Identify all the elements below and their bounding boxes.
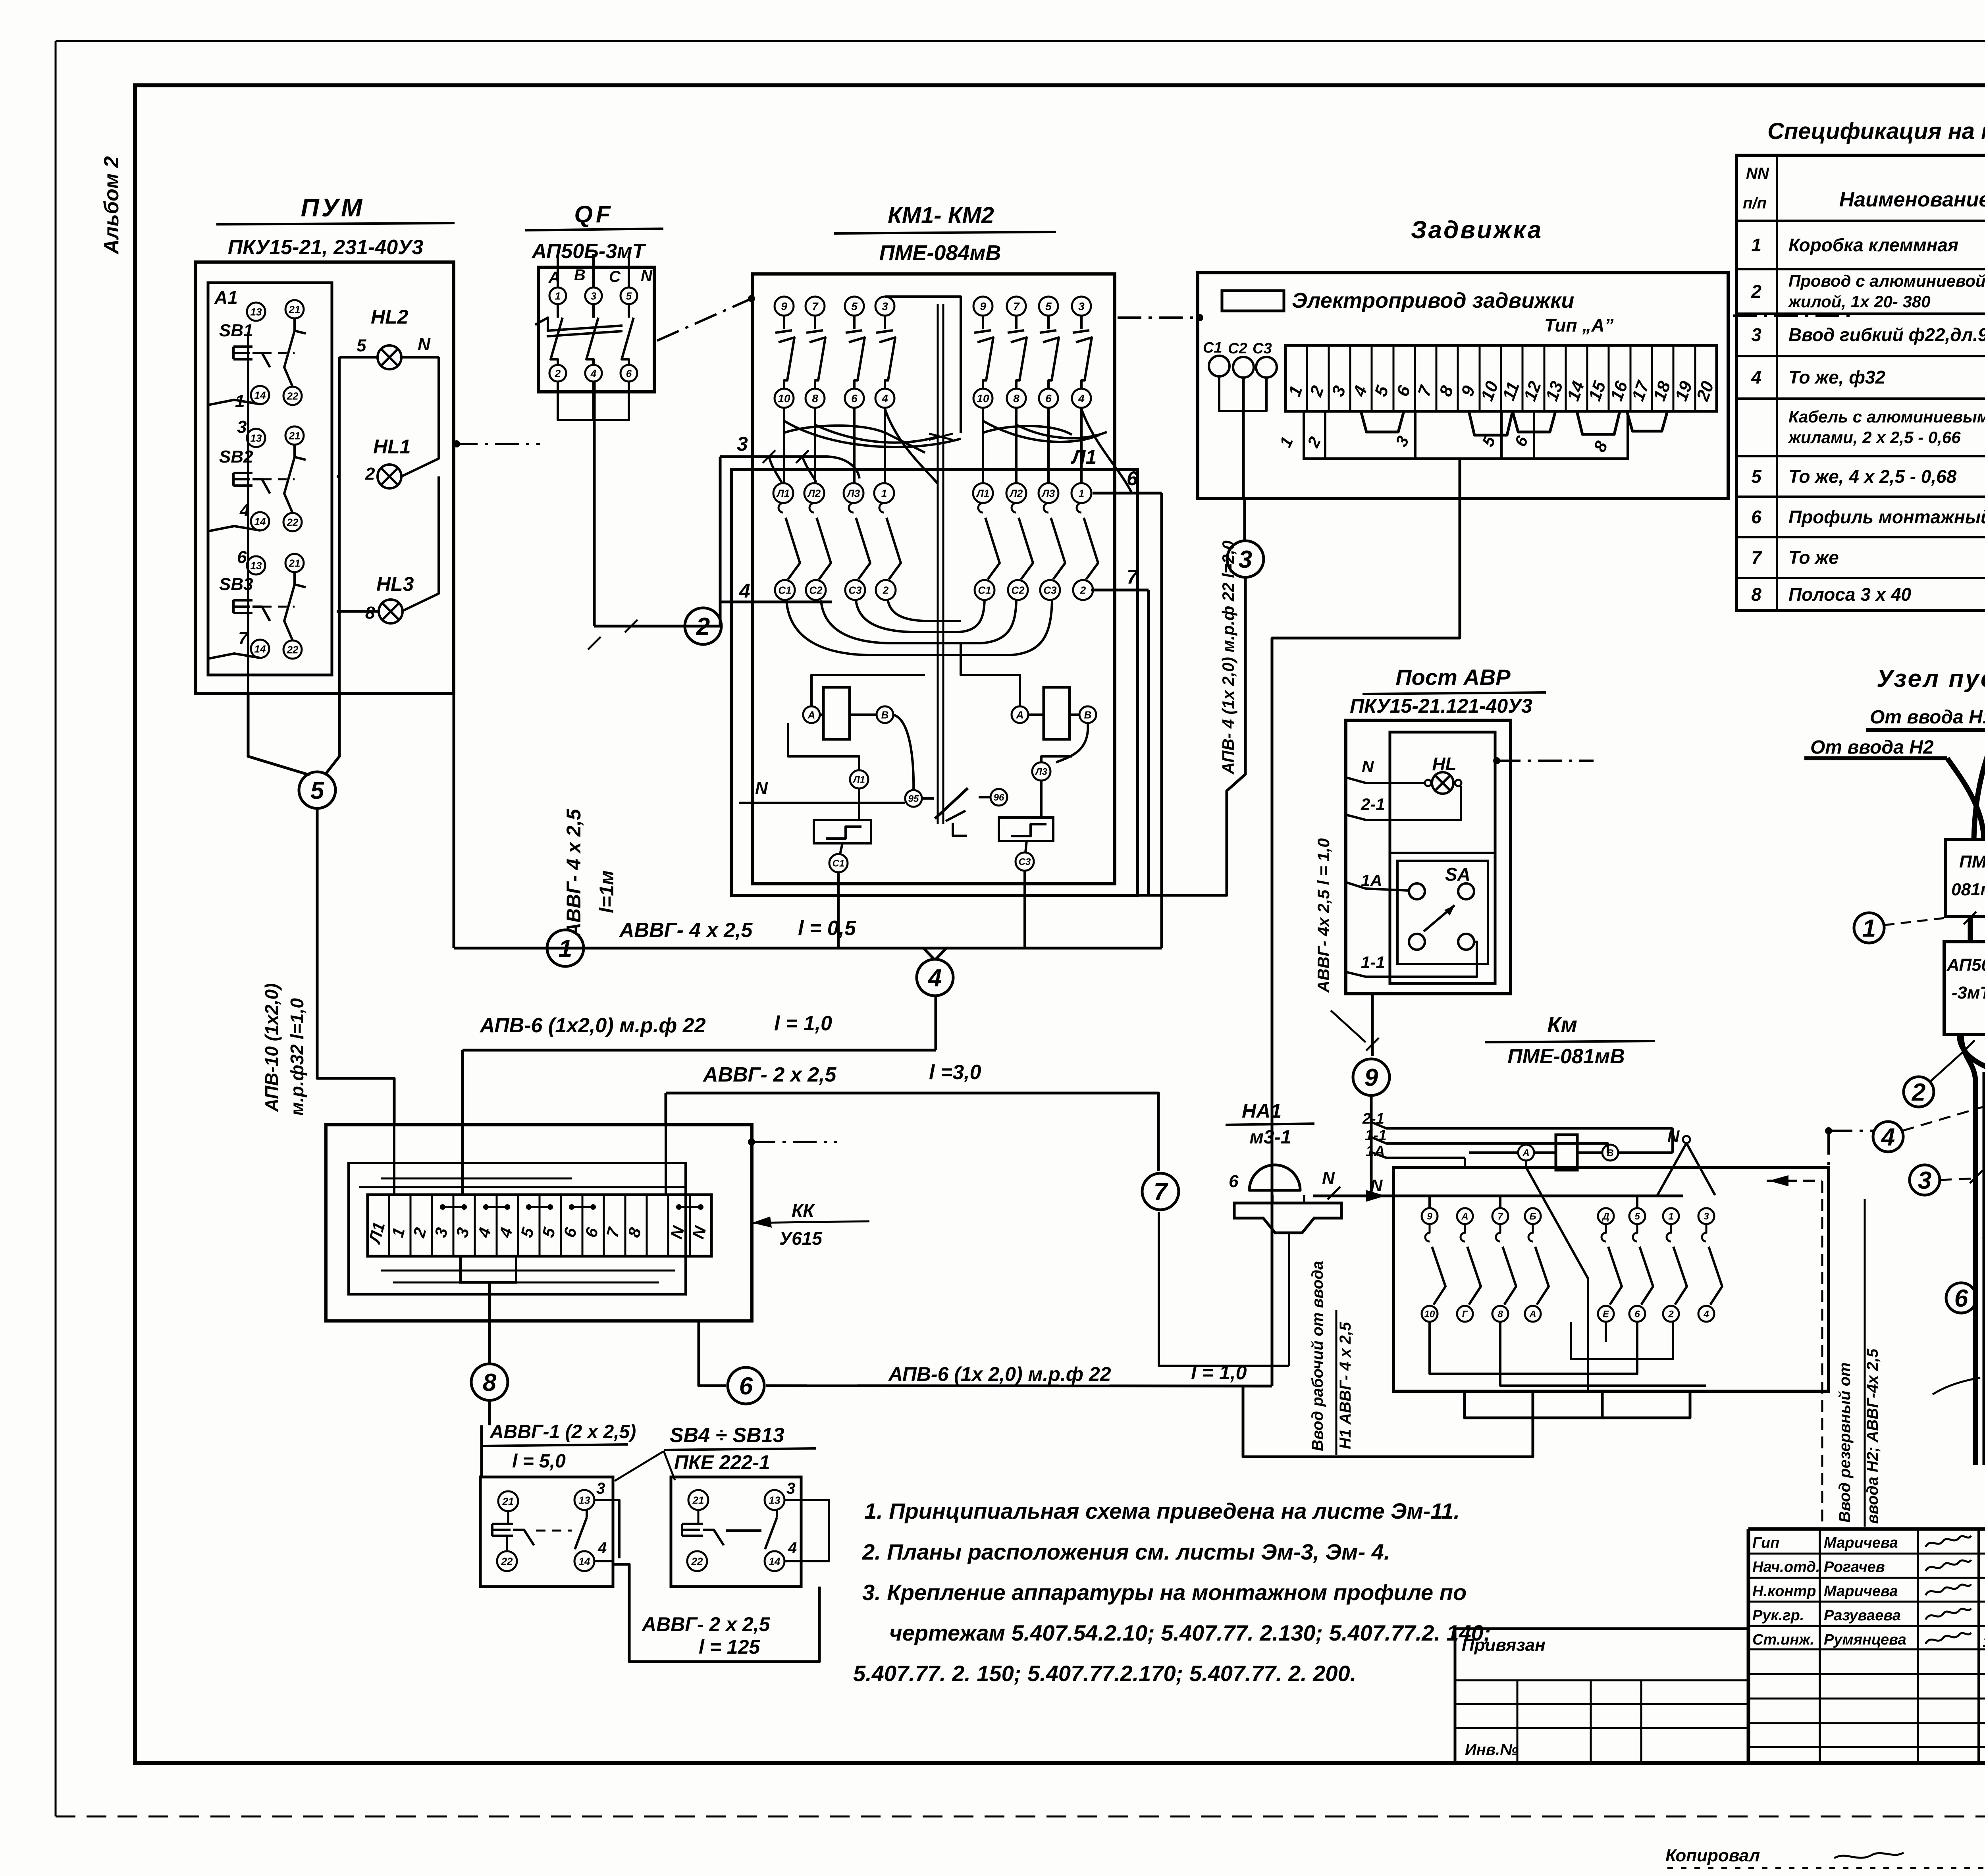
svg-text:N: N (418, 335, 431, 354)
svg-text:QF: QF (574, 201, 613, 228)
svg-text:9: 9 (980, 300, 986, 312)
svg-text:3: 3 (786, 1480, 795, 1497)
circle marker 4 uzel (1873, 1122, 1903, 1152)
svg-text:жилой, 1х 20- 380: жилой, 1х 20- 380 (1788, 292, 1931, 311)
svg-text:АП50Б: АП50Б (1946, 955, 1985, 975)
KM1-KM2 enclosure box (752, 274, 1115, 884)
push-button SB2 (247, 429, 265, 447)
svg-text:А1: А1 (214, 287, 238, 308)
svg-text:10: 10 (1424, 1309, 1435, 1320)
svg-text:SB3: SB3 (219, 575, 253, 594)
svg-text:С3: С3 (1253, 340, 1272, 357)
push-button SB3 (247, 556, 265, 575)
KK terminal strip (368, 1195, 711, 1256)
svg-text:НА1: НА1 (1242, 1100, 1282, 1122)
svg-text:3: 3 (1239, 546, 1252, 573)
AP50B-3mT box (1944, 942, 1985, 1035)
dash-dot link KM1 to Zadvizhka (1118, 316, 1198, 319)
cable marker circle 3 (1227, 541, 1264, 577)
svg-text:В: В (1607, 1148, 1613, 1159)
feeder cables from inputs (1974, 730, 1985, 839)
svg-text:2: 2 (1912, 1079, 1925, 1106)
coil KM2 (1044, 687, 1070, 739)
svg-text:6: 6 (851, 392, 858, 405)
vertical feeder to buses 3 and 4 (719, 457, 722, 626)
svg-text:1. Принципиальная схема прив: 1. Принципиальная схема приведена на лис… (864, 1498, 1460, 1523)
svg-text:4: 4 (239, 501, 249, 520)
svg-text:l = 125: l = 125 (699, 1636, 760, 1658)
svg-text:4: 4 (788, 1539, 797, 1557)
svg-text:В: В (1084, 709, 1092, 721)
svg-text:Наименование: Наименование (1839, 188, 1985, 211)
svg-text:АВВГ-1 (2 х 2,5): АВВГ-1 (2 х 2,5) (490, 1421, 636, 1442)
wire from Zadvizhka jumper to lower-left rail (1272, 499, 1460, 1386)
svg-text:КМ1- КМ2: КМ1- КМ2 (888, 202, 994, 228)
svg-text:ПУМ: ПУМ (301, 193, 365, 222)
svg-text:6: 6 (1751, 507, 1761, 527)
svg-text:3: 3 (1918, 1167, 1931, 1194)
svg-text:22: 22 (501, 1555, 513, 1567)
KK right exit to circle 6 (699, 1321, 726, 1386)
svg-text:В: В (881, 709, 889, 721)
svg-text:9: 9 (1427, 1211, 1432, 1222)
APV-6 lower wire (766, 1386, 1272, 1386)
svg-text:HL: HL (1432, 754, 1456, 774)
svg-text:3: 3 (1704, 1211, 1709, 1222)
svg-text:Профиль монтажный: Профиль монтажный (1788, 507, 1985, 527)
svg-text:10: 10 (977, 392, 989, 405)
button box SB4 wires to loop (594, 1500, 619, 1558)
QF breaker poles (549, 287, 566, 304)
right dash-dot reference lines (1825, 1127, 1832, 1134)
svg-text:1: 1 (1668, 1211, 1673, 1222)
svg-text:7: 7 (1497, 1211, 1503, 1222)
svg-text:22: 22 (287, 644, 299, 656)
AVVG-1 2x2.5 cable label (480, 1425, 483, 1477)
svg-text:-3мТ: -3мТ (1952, 983, 1985, 1003)
svg-text:3: 3 (737, 433, 748, 455)
svg-text:5: 5 (851, 300, 858, 312)
svg-text:То же, 4 х 2,5 - 0,68: То же, 4 х 2,5 - 0,68 (1788, 466, 1957, 487)
svg-text:HL2: HL2 (371, 306, 409, 328)
mechanical link lines (937, 304, 939, 824)
svg-text:Электропривод задвижки: Электропривод задвижки (1292, 289, 1574, 312)
PUM inner unit A1 box (208, 283, 332, 675)
svg-text:Ввод рабочий от ввода: Ввод рабочий от ввода (1309, 1261, 1326, 1451)
inner SA box (1397, 861, 1488, 964)
svg-text:14: 14 (579, 1555, 590, 1567)
svg-text:1: 1 (559, 935, 572, 962)
wires from pole bottoms into L1 box (783, 408, 785, 484)
button box SB13 right (671, 1477, 801, 1587)
svg-text:6: 6 (1229, 1172, 1239, 1191)
svg-text:1: 1 (555, 290, 561, 302)
svg-text:Пост АВР: Пост АВР (1395, 665, 1511, 690)
svg-text:6: 6 (1954, 1285, 1968, 1312)
KM terminal rows (1422, 1208, 1438, 1224)
bell stem and connecting wire (1288, 1233, 1290, 1366)
svg-text:14: 14 (254, 389, 266, 401)
svg-text:8: 8 (812, 392, 818, 405)
wire from circle 4 down to APV-6 bus (935, 996, 937, 1050)
svg-text:l=1м: l=1м (595, 870, 618, 913)
svg-text:Л3: Л3 (846, 487, 860, 499)
svg-text:21: 21 (289, 303, 301, 315)
svg-text:8: 8 (365, 603, 375, 623)
svg-text:1984: 1984 (1983, 1634, 1985, 1650)
PUM enclosure box (196, 262, 454, 694)
bus 3 cross marks (763, 450, 775, 463)
sheet border (outer trim line) (56, 40, 1985, 42)
svg-text:Л2: Л2 (807, 487, 821, 499)
svg-text:м.р.ф32 l=1,0: м.р.ф32 l=1,0 (287, 998, 307, 1116)
svg-text:10: 10 (778, 392, 790, 405)
svg-text:3: 3 (237, 417, 247, 437)
svg-text:1-1: 1-1 (1361, 953, 1385, 972)
long arc wires upper section (784, 421, 961, 447)
svg-text:Рук.гр.: Рук.гр. (1752, 1607, 1804, 1624)
svg-text:ПКЕ 222-1: ПКЕ 222-1 (674, 1451, 770, 1473)
Post AVR inner box (1390, 732, 1495, 983)
svg-text:Л1: Л1 (852, 775, 865, 785)
svg-text:1: 1 (1079, 487, 1084, 499)
L1 box internal loop wiring lower (786, 600, 1052, 655)
svg-text:У615: У615 (779, 1228, 823, 1249)
circle marker 1 uzel (1854, 913, 1884, 943)
svg-text:Ст.инж.: Ст.инж. (1752, 1631, 1814, 1648)
svg-text:1: 1 (235, 391, 245, 411)
L1 outer box (731, 469, 1137, 895)
privyazan extension box (1455, 1629, 1748, 1763)
Post AVR dash-dot link (1493, 757, 1500, 764)
svg-text:Спецификация на монтажные: Спецификация на монтажные материалы (1767, 118, 1985, 144)
svg-text:А: А (1529, 1309, 1536, 1320)
svg-text:С3: С3 (1043, 584, 1057, 596)
svg-text:7: 7 (1127, 566, 1139, 588)
svg-text:Провод с алюминиевой: Провод с алюминиевой (1788, 272, 1985, 290)
relay coil (1556, 1135, 1577, 1170)
svg-text:АВВГ- 4 х 2,5: АВВГ- 4 х 2,5 (563, 808, 585, 938)
signature table rows (1748, 1553, 1985, 1555)
svg-text:2. Планы расположения см. л: 2. Планы расположения см. листы Эм-3, Эм… (862, 1539, 1390, 1564)
svg-text:Ввод резервный от: Ввод резервный от (1836, 1362, 1854, 1523)
svg-text:6: 6 (739, 1373, 753, 1400)
SB2 contact (293, 445, 296, 457)
svg-text:SA: SA (1445, 864, 1470, 885)
svg-text:А: А (1016, 709, 1024, 721)
svg-text:96: 96 (994, 792, 1004, 803)
bell HA1 symbol (1249, 1165, 1300, 1190)
svg-text:То же: То же (1788, 547, 1839, 568)
svg-text:5: 5 (1045, 300, 1052, 312)
svg-text:5.407.77. 2. 150; 5.407.77.2.: 5.407.77. 2. 150; 5.407.77.2.170; 5.407.… (853, 1661, 1356, 1686)
wire from circle 9 down with row fan-out (1370, 1095, 1373, 1196)
KM1 KM2 main contact poles (775, 297, 794, 316)
coil KM1 (823, 687, 850, 739)
svg-text:l = 0,5: l = 0,5 (798, 917, 856, 940)
svg-text:А: А (1461, 1211, 1468, 1222)
svg-text:4: 4 (1751, 367, 1761, 388)
svg-text:Л3: Л3 (1041, 487, 1055, 499)
svg-text:N: N (755, 779, 768, 798)
leader lines to button boxes (615, 1451, 664, 1481)
lamp wiring (339, 356, 378, 359)
svg-text:14: 14 (254, 515, 266, 527)
svg-text:Румянцева: Румянцева (1824, 1631, 1906, 1648)
vertical label Vvod rabochiy (1336, 1310, 1337, 1455)
svg-text:Кабель с алюминиевыми: Кабель с алюминиевыми (1788, 407, 1985, 426)
SB1 dashed actuator link (263, 352, 295, 354)
svg-text:6: 6 (1045, 392, 1052, 405)
QF bottom wires (558, 382, 629, 420)
diagonal wire from coil A to lower (1526, 1161, 1588, 1391)
long twin riser cable (1961, 1035, 1975, 1465)
svg-text:Коробка клеммная: Коробка клеммная (1788, 235, 1958, 255)
svg-text:13: 13 (579, 1494, 590, 1506)
svg-text:22: 22 (287, 516, 299, 528)
svg-text:5: 5 (310, 777, 325, 804)
svg-text:3: 3 (1751, 324, 1761, 345)
svg-text:2-1: 2-1 (1362, 1111, 1384, 1127)
svg-text:АПВ-6 (1х 2,0) м.р.ф 22: АПВ-6 (1х 2,0) м.р.ф 22 (888, 1363, 1111, 1385)
svg-text:5: 5 (357, 336, 366, 355)
svg-text:м3-1: м3-1 (1250, 1127, 1291, 1148)
svg-text:4: 4 (1881, 1124, 1895, 1151)
svg-text:SB2: SB2 (219, 447, 253, 467)
svg-text:жилами, 2 х 2,5 - 0,66: жилами, 2 х 2,5 - 0,66 (1788, 428, 1961, 447)
svg-text:Маричева: Маричева (1824, 1535, 1898, 1551)
svg-text:Узел пусковой аппаратуры: Узел пусковой аппаратуры (1877, 665, 1985, 692)
push-button SB1 (247, 303, 265, 321)
svg-text:Км: Км (1547, 1012, 1577, 1037)
wire from Zadvizhka down via circle 3 (1243, 499, 1246, 541)
SB2 dashed actuator link (263, 478, 295, 480)
svg-text:Инв.№: Инв.№ (1465, 1741, 1518, 1758)
svg-text:С1: С1 (833, 858, 845, 869)
KM bottom nested loops (1465, 1391, 1690, 1418)
svg-text:1: 1 (1862, 915, 1876, 942)
svg-text:13: 13 (769, 1494, 781, 1506)
svg-text:2: 2 (1668, 1309, 1674, 1320)
SB1 contact (293, 318, 296, 331)
svg-text:3. Крепление аппаратуры на: 3. Крепление аппаратуры на монтажном про… (862, 1580, 1467, 1605)
svg-text:А: А (807, 709, 815, 721)
terminal strip 1-20 (1285, 345, 1717, 411)
jumper box exit wire (1459, 459, 1461, 499)
electric drive symbol rect (1222, 291, 1284, 311)
svg-text:п/п: п/п (1743, 195, 1767, 212)
svg-text:7: 7 (1154, 1178, 1168, 1206)
svg-text:ввода Н2; АВВГ-4х 2,5: ввода Н2; АВВГ-4х 2,5 (1864, 1348, 1881, 1524)
svg-text:5: 5 (1634, 1211, 1640, 1222)
svg-text:2: 2 (555, 367, 561, 379)
svg-text:13: 13 (251, 559, 262, 571)
svg-text:4: 4 (881, 392, 888, 405)
dash-dot link PUM to QF (454, 443, 540, 445)
svg-text:8: 8 (1497, 1309, 1503, 1320)
svg-text:4: 4 (927, 964, 942, 992)
svg-text:Гип: Гип (1752, 1535, 1779, 1551)
svg-text:2: 2 (883, 584, 889, 596)
svg-text:АВВГ- 4 х 2,5: АВВГ- 4 х 2,5 (619, 919, 753, 942)
svg-text:N: N (641, 267, 653, 285)
SA selector arrow (1424, 905, 1455, 931)
svg-text:13: 13 (251, 306, 262, 318)
svg-text:Л1: Л1 (976, 487, 989, 499)
svg-text:21: 21 (502, 1495, 514, 1507)
svg-text:АВВГ- 2 х 2,5: АВВГ- 2 х 2,5 (702, 1063, 836, 1086)
svg-text:13: 13 (251, 432, 262, 444)
svg-text:С1: С1 (1203, 339, 1222, 356)
svg-text:22: 22 (287, 390, 299, 402)
Post AVR outer box (1346, 720, 1511, 994)
svg-text:Привязан: Привязан (1462, 1635, 1546, 1655)
KK inner box (349, 1163, 686, 1294)
svg-text:Н1 АВВГ- 4 х 2,5: Н1 АВВГ- 4 х 2,5 (1337, 1322, 1354, 1449)
svg-text:Полоса 3 х 40: Полоса 3 х 40 (1788, 584, 1912, 605)
wire down through circle 8 (488, 1321, 491, 1364)
svg-text:3: 3 (1078, 300, 1085, 312)
svg-text:Копировал: Копировал (1665, 1846, 1760, 1865)
svg-text:081мВ: 081мВ (1951, 880, 1985, 899)
U615 bottom exit cables (1985, 1180, 1985, 1239)
svg-text:22: 22 (691, 1555, 703, 1567)
svg-text:N: N (1362, 757, 1374, 776)
svg-text:Маричева: Маричева (1824, 1583, 1898, 1600)
svg-text:9: 9 (1364, 1064, 1378, 1091)
circle marker 3 uzel (1910, 1165, 1940, 1195)
dash-dot stub from KK box (748, 1138, 755, 1145)
svg-text:От ввода Н2: От ввода Н2 (1810, 737, 1934, 758)
QF trip bar (547, 326, 622, 331)
svg-text:N: N (1322, 1168, 1335, 1188)
svg-text:2-1: 2-1 (1361, 795, 1385, 814)
KK outer box (326, 1125, 752, 1321)
dash-dot stub right of Zadvizhka (1733, 314, 1850, 317)
PME 081mV box (1945, 839, 1985, 916)
specification table grid (1736, 155, 1985, 611)
svg-text:С2: С2 (1011, 584, 1025, 596)
cable marker circle 6 (728, 1367, 764, 1404)
svg-text:N: N (1370, 1176, 1383, 1195)
svg-text:ПКУ15-21, 231-40У3: ПКУ15-21, 231-40У3 (228, 236, 424, 259)
svg-text:l = 5,0: l = 5,0 (512, 1451, 566, 1472)
dash-dot link QF to KM1 (657, 299, 752, 341)
bus 3 branches to coil contacts (828, 457, 860, 478)
svg-text:5: 5 (626, 290, 632, 302)
svg-text:5: 5 (1751, 466, 1762, 487)
button box SB13 wires (784, 1500, 829, 1561)
svg-text:4: 4 (1078, 392, 1085, 405)
terminal strip jumpers below (1361, 411, 1404, 432)
coil to thermal link wires (788, 723, 859, 771)
svg-text:АВВГ- 2 х 2,5: АВВГ- 2 х 2,5 (641, 1613, 771, 1635)
QF wires top (557, 267, 559, 287)
svg-text:С3: С3 (848, 584, 862, 596)
title block top edge (1748, 1527, 1985, 1531)
svg-text:SB4 ÷ SB13: SB4 ÷ SB13 (670, 1424, 784, 1447)
svg-text:6: 6 (1634, 1309, 1640, 1320)
supply circle wires (1219, 376, 1243, 411)
svg-text:7: 7 (1013, 300, 1020, 312)
svg-text:Е: Е (1603, 1309, 1609, 1320)
SB3 contact (293, 572, 296, 584)
svg-text:Л1: Л1 (776, 487, 790, 499)
KK exit box bottom (461, 1256, 516, 1282)
svg-text:Альбом 2: Альбом 2 (100, 156, 123, 255)
svg-text:Нач.отд.: Нач.отд. (1752, 1559, 1820, 1575)
svg-text:ПМЕ: ПМЕ (1959, 852, 1985, 871)
cable marker circle 9 (1353, 1059, 1389, 1095)
svg-text:Д: Д (1601, 1211, 1609, 1222)
KK jumper bars with dots (443, 1206, 464, 1208)
SB3 dashed actuator link (263, 606, 295, 608)
svg-text:4: 4 (1703, 1309, 1709, 1320)
KM internal feed wires (1428, 1196, 1431, 1208)
svg-text:4: 4 (597, 1539, 607, 1557)
svg-text:1: 1 (881, 487, 887, 499)
section divider (1390, 852, 1495, 854)
svg-text:NN: NN (1746, 165, 1769, 182)
svg-text:3: 3 (591, 290, 597, 302)
right side verticals of L1 box (1160, 493, 1163, 948)
svg-text:2: 2 (1751, 281, 1761, 302)
svg-text:То же, ф32: То же, ф32 (1788, 367, 1886, 388)
svg-text:2: 2 (365, 464, 375, 484)
KM aux contact center (935, 788, 968, 819)
svg-text:21: 21 (289, 430, 301, 442)
svg-text:14: 14 (254, 643, 266, 655)
cable marker circle 5 (299, 772, 335, 808)
svg-text:Тип „А”: Тип „А” (1544, 315, 1614, 335)
AVVG-4x2.5 l=0.5 wire with markers 1 and 4 (453, 445, 455, 948)
svg-text:Задвижка: Задвижка (1411, 216, 1543, 244)
Post AVR left bus wire down to circle 9 (1371, 994, 1374, 1056)
vertical label Vvod rezervny (1864, 1199, 1866, 1527)
svg-text:ПКУ15-21.121-40У3: ПКУ15-21.121-40У3 (1350, 695, 1532, 717)
cable marker circle 8 (471, 1364, 508, 1400)
svg-text:3: 3 (882, 300, 888, 312)
thermal relay elements (850, 770, 868, 789)
Zadvizhka enclosure box (1198, 273, 1728, 499)
svg-text:3: 3 (596, 1480, 605, 1497)
svg-text:14: 14 (769, 1555, 781, 1567)
svg-text:l =3,0: l =3,0 (929, 1061, 981, 1084)
svg-text:Л3: Л3 (1035, 767, 1047, 777)
svg-text:21: 21 (692, 1494, 704, 1506)
svg-text:АПВ- 4 (1х 2,0) м.р.ф 22 l=2,: АПВ- 4 (1х 2,0) м.р.ф 22 l=2,0 (1219, 540, 1237, 775)
svg-text:ПМЕ-084мВ: ПМЕ-084мВ (879, 241, 1001, 265)
cable AP50B to U615 (1959, 1035, 1985, 1091)
KM starter box (1393, 1167, 1829, 1391)
svg-text:АПВ-6 (1х2,0) м.р.ф 22: АПВ-6 (1х2,0) м.р.ф 22 (479, 1014, 706, 1037)
coil feed wires (811, 675, 925, 706)
cable marker circle 1 (547, 930, 584, 966)
svg-text:А: А (1522, 1148, 1529, 1159)
svg-text:HL1: HL1 (373, 436, 410, 458)
svg-text:Г: Г (1462, 1309, 1469, 1320)
svg-text:С2: С2 (1228, 340, 1247, 357)
svg-text:6: 6 (237, 548, 247, 567)
svg-text:7: 7 (238, 629, 249, 648)
wire from node 5 down to KK box (317, 808, 394, 1125)
svg-text:Л2: Л2 (1009, 487, 1023, 499)
Y junction to circle 4 (923, 948, 935, 960)
signature table columns (1819, 1529, 1821, 1763)
svg-text:HL3: HL3 (376, 573, 414, 595)
svg-text:1: 1 (1751, 235, 1761, 255)
svg-text:N: N (1667, 1127, 1680, 1145)
